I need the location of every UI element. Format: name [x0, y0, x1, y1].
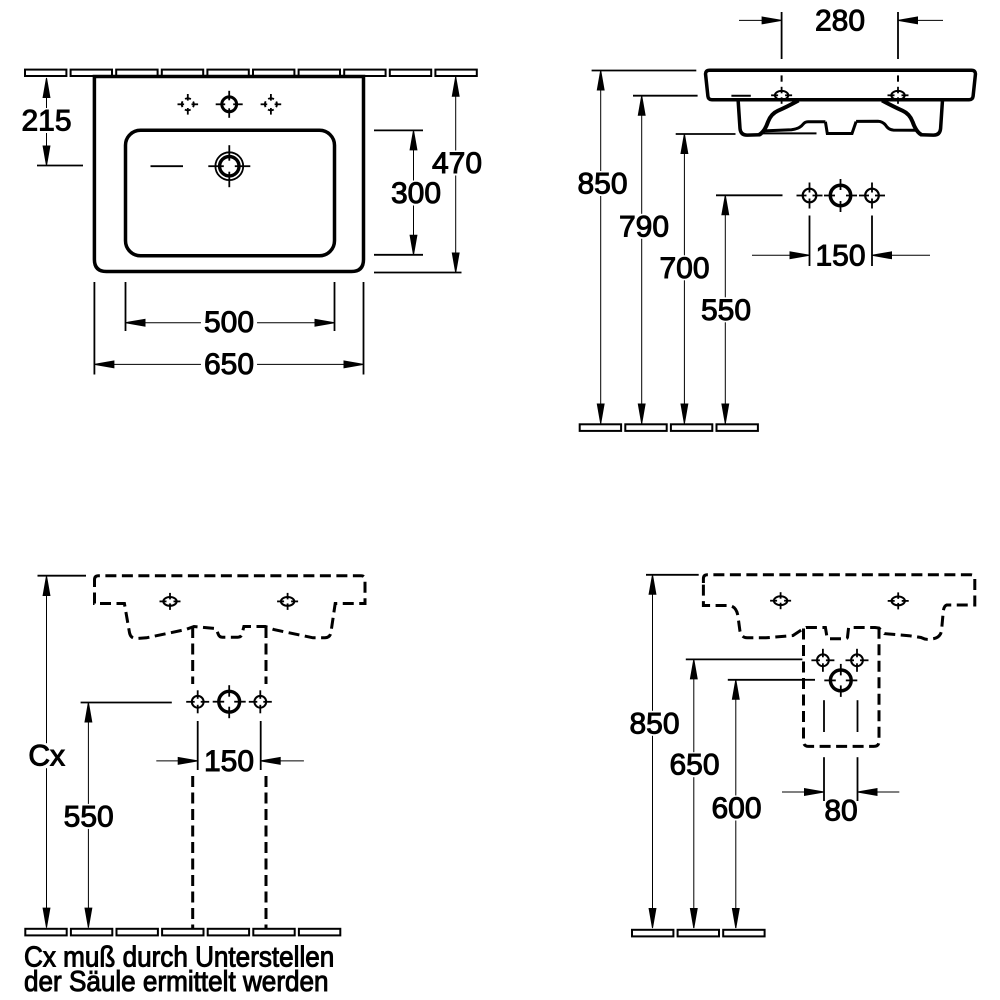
left faucet hole (front elevation) [797, 183, 823, 209]
dimension 280 [739, 5, 943, 38]
svg-text:790: 790 [619, 210, 669, 243]
dimension 550 (rear) [61, 703, 117, 928]
dimension 80 [782, 789, 899, 828]
wall hatch segments [25, 70, 477, 76]
extension line for 215 [37, 165, 83, 167]
pedestal drain hole (rear view) [213, 685, 246, 718]
right mounting hole (side view) [888, 592, 909, 609]
svg-text:150: 150 [815, 240, 865, 273]
svg-text:280: 280 [815, 5, 865, 38]
floor hatch (front elevation) [580, 424, 758, 431]
extension line 550 top (rear view) [81, 702, 172, 704]
washbasin rear outline dashed (rear view) [95, 576, 366, 639]
dimension 550 (front) [698, 195, 754, 423]
extension lines for 80 (side view) [823, 700, 825, 732]
dimension 470 (right outer) [429, 77, 485, 273]
centerline tick left of drain [151, 165, 184, 167]
dimension 790 [616, 96, 672, 424]
right hanger bracket (front elevation) [921, 100, 943, 135]
pedestal right hole (rear view) [249, 690, 272, 713]
extension lines below top view [93, 282, 95, 375]
pedestal left side dashed (rear view) [191, 627, 194, 684]
extension lines for heights (front elevation) [592, 70, 697, 72]
left mounting hole (front elevation) [771, 87, 792, 104]
left mounting hole (side view) [770, 592, 791, 609]
right faucet hole (front elevation) [859, 183, 885, 209]
inner basin outline (top view) [126, 130, 335, 256]
dimension 600 [708, 680, 764, 928]
pedestal outline dashed (side view) [804, 628, 880, 746]
left faucet hole marking (top view) [178, 94, 199, 115]
svg-text:550: 550 [701, 294, 751, 327]
right faucet hole marking (top view) [261, 94, 282, 115]
washbasin rim (front elevation) [706, 70, 976, 99]
dimension 850 (front) [574, 71, 630, 424]
basin underside contour left (front elevation) [764, 122, 825, 131]
svg-text:550: 550 [64, 800, 114, 833]
right mounting hole (rear view) [277, 593, 298, 610]
extension lines for heights (side view) [646, 574, 699, 576]
svg-text:470: 470 [432, 147, 482, 180]
tick inside rim at mounting level [731, 95, 750, 97]
svg-text:700: 700 [659, 252, 709, 285]
extension lines for 280 [781, 12, 783, 59]
extension lines for 300 and 470 [374, 129, 423, 131]
pedestal right side dashed (rear view) [265, 627, 268, 684]
right underside S-curve [882, 101, 922, 135]
drain boss (front elevation) [825, 122, 856, 134]
centerline stubs above mounting holes [781, 75, 783, 81]
left mounting hole (rear view) [160, 593, 181, 610]
floor hatch (rear view) [25, 929, 340, 936]
dimension 700 [656, 134, 712, 424]
pedestal drain hole (side view) [824, 664, 857, 697]
pedestal left hole (rear view) [186, 690, 209, 713]
dimension 650 [666, 659, 722, 928]
left underside S-curve [759, 101, 799, 135]
dimension 215 (left) [18, 78, 74, 166]
dimension 850 (side) [626, 575, 682, 928]
svg-text:150: 150 [204, 745, 254, 778]
floor hatch (side view) [632, 930, 765, 937]
washbasin side outline dashed (side view) [703, 575, 974, 640]
pedestal upper-right hole (side view) [846, 649, 869, 672]
drain hole (top view) [208, 145, 250, 187]
svg-text:650: 650 [204, 348, 254, 381]
center faucet hole (top view) [216, 91, 243, 118]
dimension 300 (right inner) [388, 130, 444, 254]
extension line Cx top [38, 575, 87, 577]
svg-text:Cx: Cx [28, 740, 65, 773]
svg-text:215: 215 [21, 105, 71, 138]
washbasin outer outline (top view) [94, 77, 363, 272]
svg-text:850: 850 [629, 707, 679, 740]
dimension 500 [126, 306, 335, 339]
svg-text:650: 650 [669, 749, 719, 782]
dimension 150 (rear) [156, 745, 304, 778]
dimension Cx [27, 576, 66, 928]
left hanger bracket (front elevation) [738, 100, 760, 135]
dimension 650 [94, 348, 363, 381]
extension lines for 150 (rear view) [197, 721, 199, 770]
svg-text:der Säule ermittelt werden: der Säule ermittelt werden [24, 965, 329, 998]
drain hole (front elevation) [824, 179, 857, 212]
dimension 150 (front) [752, 240, 930, 273]
basin underside rear edge (thin) [763, 132, 817, 134]
pedestal upper-left hole (side view) [811, 649, 834, 672]
svg-text:600: 600 [711, 792, 761, 825]
extension lines for 150 (front elevation) [809, 216, 811, 267]
basin underside contour right (front elevation) [856, 121, 918, 130]
svg-text:500: 500 [204, 306, 254, 339]
svg-text:300: 300 [391, 177, 441, 210]
right mounting hole (front elevation) [888, 87, 909, 104]
svg-text:80: 80 [824, 795, 857, 828]
svg-text:850: 850 [577, 168, 627, 201]
